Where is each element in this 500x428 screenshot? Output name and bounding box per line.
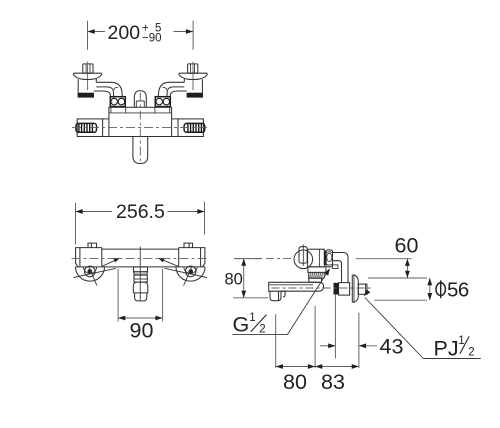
dimension 43 arrows [320,345,336,347]
left leg pipe [78,79,96,93]
dimension 200 arrow right [186,29,193,34]
label G 1/2 [232,267,332,337]
dimension 80 reference bottom [233,297,268,299]
side handle knob [294,250,313,269]
right leg crank arm [158,82,186,96]
dimension 256.5 extension line left [75,203,77,245]
dimension 200 +5/-90 extension line right [192,21,194,50]
left bell slot lines [74,268,117,277]
left wall flange group (plan) [73,62,125,107]
side spout tip [270,291,285,301]
dimension 80 line (bottom) [276,366,315,368]
right handle connector (plan) [172,119,178,137]
svg-text:1: 1 [249,312,255,324]
right wall flange group (plan, mirrored) [155,62,207,107]
dimension 90 extension lines [117,269,119,322]
G1/2 leader line [232,334,287,336]
front right bell flange [165,266,208,286]
dimension text phi56 [436,278,469,301]
right handle knurl [184,123,205,132]
left handle (plan) [77,119,102,137]
right flange centerline [192,62,194,91]
left handle knurl [76,123,97,132]
dimension 200 line left segment [88,31,106,33]
left leg black band [78,93,94,98]
front diagonal arrow right [160,259,178,267]
side crank pipe [333,253,349,283]
dimension 80 vertical line [243,259,245,298]
right leg elbow inner mark [163,87,167,90]
left flange centerline [87,62,89,91]
body (plan) [109,107,172,136]
svg-text:83: 83 [321,370,345,394]
svg-text:G: G [233,313,250,337]
side black block [334,283,339,295]
plan horizontal centerline [72,127,209,129]
dimension 200 line right segment [174,31,194,33]
svg-text:1: 1 [458,335,464,347]
side joint stack under body [308,267,326,273]
svg-text:80: 80 [225,270,243,288]
left union nut (plan) [110,97,125,107]
dimension 90 line [118,317,163,319]
plan vertical centerline [139,93,141,162]
side handle axis [302,245,304,266]
dimension 60 vertical [406,259,408,278]
dimension 256.5 arrows [76,209,83,214]
spout tube (plan, bottom) [133,137,148,164]
left handle connector (plan) [103,119,109,137]
dimension 80 (front-side) reference top [234,258,262,260]
side body centerline dashes [236,258,262,260]
dimension 43 extension line right [358,313,360,369]
front body division left [101,248,103,267]
front horizontal centerline [72,258,209,260]
side flange disc [352,275,358,302]
dimension 80/83 extension lines [275,314,277,368]
PJ1/2 leader line [423,358,481,360]
left leg crank arm [94,82,122,96]
side union nut [326,250,332,267]
left bell screw [85,266,96,277]
right handle (plan) [178,119,203,137]
right bell slot lines [165,268,208,277]
right union nut (plan) [155,97,170,107]
side spout inner line [270,284,314,286]
dimension 256.5 extension line right [204,202,206,235]
svg-text:PJ: PJ [434,336,459,360]
side horizontal axis dashed [272,287,373,289]
svg-text:80: 80 [283,370,307,394]
dimension phi56 vertical [429,278,431,300]
front left bell flange [74,266,117,286]
side step ring under nut [333,265,338,269]
front left handle tab [88,243,97,248]
svg-text:200: 200 [108,22,141,44]
hex nut on right flange [188,64,198,73]
reference line C [374,299,427,301]
svg-text:2: 2 [259,324,265,336]
dimension 60 reference line A [356,258,412,260]
front diagonal arrow left [102,259,118,267]
right flange trumpet [179,73,207,79]
left leg elbow inner mark [114,87,118,90]
reference line B [368,277,427,279]
front right handle tab [184,243,193,248]
svg-text:43: 43 [380,334,404,358]
dimension 200 arrow left [88,29,95,34]
dimension 200 +5/-90 extension line left [87,21,89,50]
label PJ 1/2 [362,289,481,360]
dimension 83 line (bottom) [315,366,359,368]
spout dome (plan, centre top) [134,91,146,108]
front body bottom line [76,266,205,268]
body upper section line [109,112,172,114]
left union nut circles [111,98,118,105]
front faucet body top line [102,248,179,250]
side body [308,249,325,267]
right union nut circles [163,98,170,105]
front right handle [179,248,205,267]
side spout [269,282,324,291]
right leg black band [187,93,203,98]
svg-text:−90: −90 [142,32,162,44]
front body centre vertical [139,247,141,267]
left flange trumpet [73,73,101,79]
side wall adapter [339,283,350,296]
svg-text:90: 90 [130,319,154,343]
svg-text:56: 56 [447,278,469,301]
front body division right [178,248,180,267]
side union nut black band [324,251,326,266]
right leg pipe [184,79,202,93]
side handle stem [299,247,307,263]
hex nut on left flange [83,64,93,73]
svg-text:256.5: 256.5 [116,201,165,223]
right bell screw [185,266,196,277]
body stubs under union nuts [111,107,170,113]
dimension 43 extension line left (from black block) [334,295,336,359]
front left handle [76,248,102,267]
side nipple PJ1/2 [358,284,367,294]
front spout stack [133,267,148,302]
svg-text:60: 60 [395,234,419,258]
svg-text:2: 2 [468,346,474,358]
dimension 256.5 line [76,211,113,213]
